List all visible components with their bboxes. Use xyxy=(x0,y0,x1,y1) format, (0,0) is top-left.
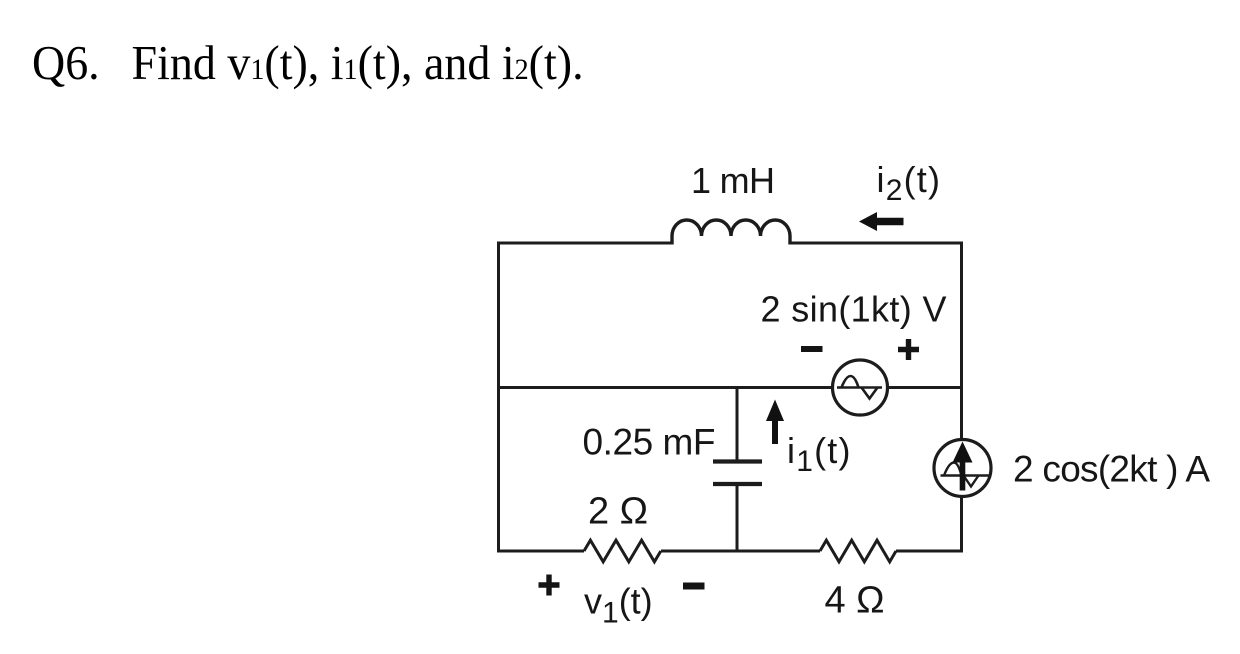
svg-text:2 sin(1kt) V: 2 sin(1kt) V xyxy=(761,289,947,330)
svg-text:v1(t): v1(t) xyxy=(584,581,653,630)
svg-text:0.25 mF: 0.25 mF xyxy=(583,422,716,463)
svg-text:2 cos(2kt ) A: 2 cos(2kt ) A xyxy=(1013,449,1210,490)
svg-text:1 mH: 1 mH xyxy=(691,160,775,201)
svg-text:2 Ω: 2 Ω xyxy=(588,491,648,533)
svg-text:4 Ω: 4 Ω xyxy=(825,580,885,622)
svg-text:i1(t): i1(t) xyxy=(787,430,852,478)
svg-text:i2(t): i2(t) xyxy=(877,159,942,207)
